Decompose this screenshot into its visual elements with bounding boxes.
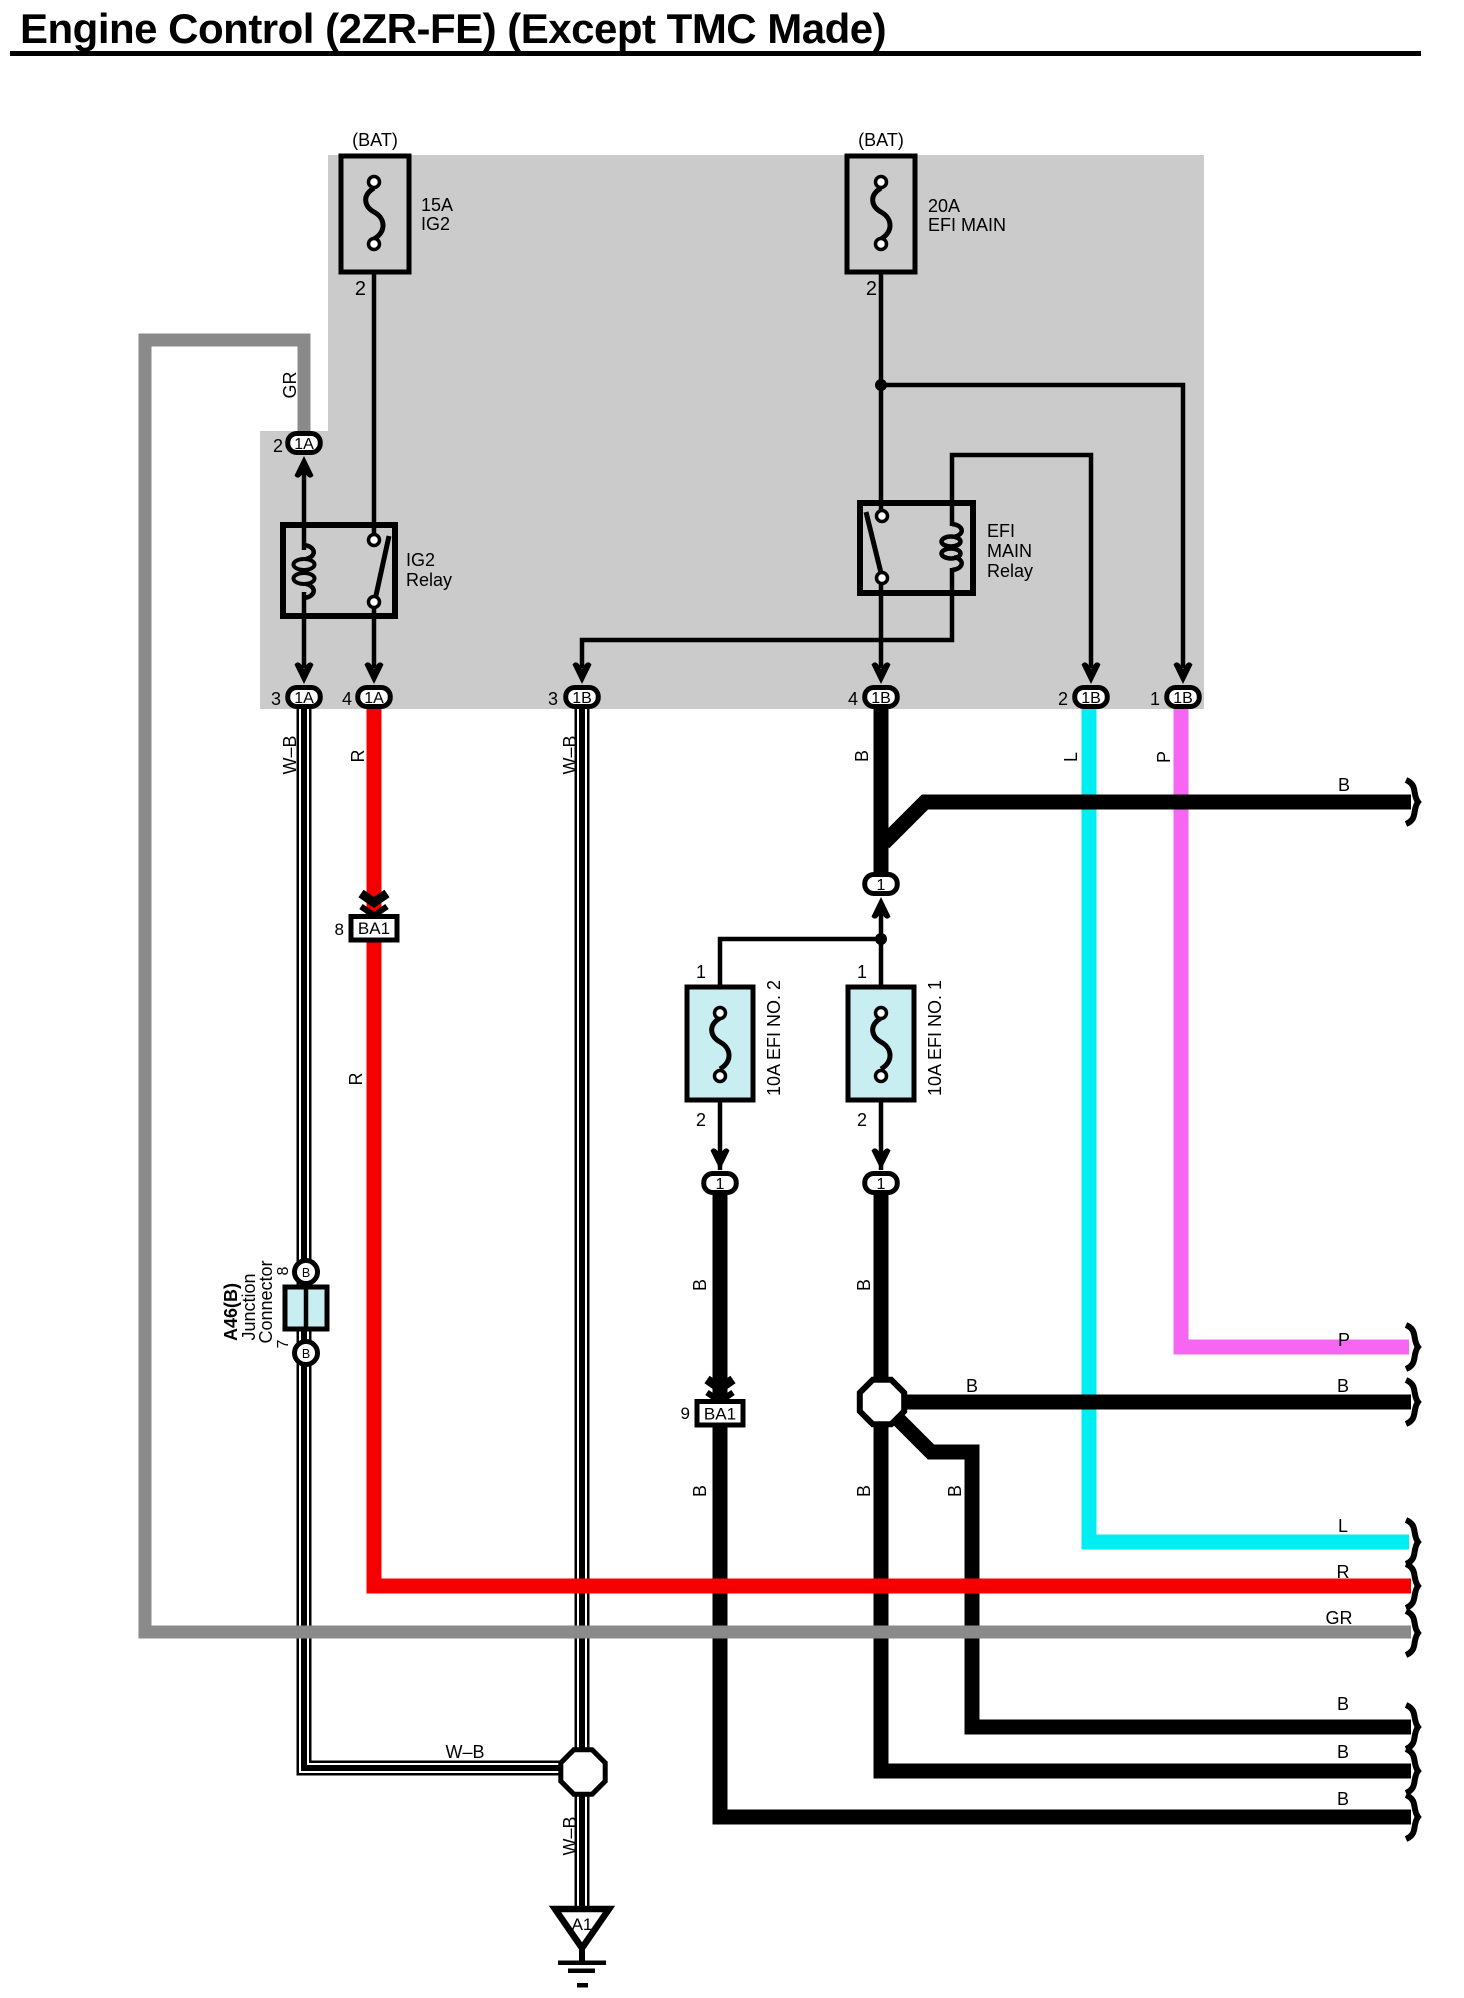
wire B: from octagon right to terminator [900, 1395, 1411, 1410]
fuse 15A IG2 [341, 156, 409, 272]
svg-text:1B: 1B [572, 690, 592, 707]
wire: IG2 relay switch bottom down to connector 4-1A [372, 602, 377, 668]
wire: IG2 relay coil bottom down to connector 3-1A [302, 592, 307, 668]
svg-text:2: 2 [273, 436, 283, 456]
svg-text:B: B [966, 1376, 978, 1396]
wire B: thick black from oval-1 of fuse EFI NO.2 down then right to terminator [720, 1194, 1411, 1817]
svg-text:B: B [1337, 1694, 1349, 1714]
svg-text:EFI: EFI [987, 521, 1015, 541]
svg-text:A46(B): A46(B) [221, 1283, 241, 1341]
wire B: from octagon down then right to terminator [881, 1420, 1411, 1771]
wire: thin black from fuse EFI MAIN pin2 down to EFI MAIN relay switch [879, 272, 884, 516]
svg-text:R: R [346, 1073, 366, 1086]
connector 4-1A oval with down arrow [358, 662, 391, 707]
svg-text:1A: 1A [364, 690, 384, 707]
wire L: cyan from 2-1B down then right to terminator [1089, 700, 1409, 1542]
svg-text:BA1: BA1 [358, 919, 390, 938]
svg-text:1A: 1A [294, 690, 314, 707]
svg-text:Relay: Relay [406, 570, 452, 590]
title underline [10, 51, 1421, 56]
svg-text:1: 1 [696, 962, 706, 982]
svg-text:EFI MAIN: EFI MAIN [928, 215, 1006, 235]
terminator brace GR [1406, 1611, 1418, 1655]
svg-text:L: L [1338, 1516, 1348, 1536]
svg-text:1: 1 [877, 877, 886, 894]
svg-text:10A EFI NO. 2: 10A EFI NO. 2 [764, 980, 784, 1096]
svg-text:8: 8 [275, 1266, 292, 1275]
svg-text:GR: GR [280, 371, 300, 398]
wire B: thick black from oval-1 of fuse EFI NO.1 down to octagon [874, 1194, 889, 1382]
terminator brace L [1406, 1520, 1418, 1564]
junction connector A46(B) [285, 1261, 327, 1365]
svg-text:(BAT): (BAT) [858, 130, 904, 150]
svg-text:1A: 1A [294, 436, 314, 453]
connector oval 1 below fuse EFI NO.1 with down arrow [865, 1148, 898, 1193]
connector oval 1 on B feed with up arrow [865, 875, 898, 919]
wire B: thick black from 4-1B down to oval-1 [874, 700, 889, 872]
svg-text:R: R [1337, 1562, 1350, 1582]
svg-text:Connector: Connector [256, 1260, 276, 1343]
wire: thin black from fuse IG2 pin2 down to IG2 relay switch [372, 272, 377, 540]
wire: branch from node at (881,385) right and down to connector 1-1B [881, 385, 1183, 668]
connector 2-1A oval with up arrow [288, 434, 321, 478]
terminator brace B octagon [1406, 1380, 1418, 1424]
svg-text:1: 1 [1150, 689, 1160, 709]
fuse 10A EFI NO.2 [687, 987, 753, 1100]
svg-text:B: B [854, 1279, 874, 1291]
svg-text:MAIN: MAIN [987, 541, 1032, 561]
svg-text:2: 2 [866, 278, 877, 300]
wire W-B: from 3-1B down through octagon to ground A1 [575, 697, 590, 1907]
terminator brace R [1406, 1564, 1418, 1608]
wire B: diagonal branch to top-right horizontal terminator [884, 802, 1411, 843]
svg-text:IG2: IG2 [421, 214, 450, 234]
wire: thin black from oval-1 node down to branch node and fuses EFI NO.1 / NO.2 [879, 905, 884, 1014]
wire: thin black from fuse EFI NO.2 bottom to oval-1 [718, 1075, 723, 1170]
octagon junction B [860, 1380, 904, 1424]
svg-text:W–B: W–B [280, 735, 300, 774]
wire: from 2-1A connector down into IG2 relay coil [302, 470, 307, 550]
connector 4-1B oval with down arrow [865, 662, 898, 707]
svg-text:B: B [854, 1485, 874, 1497]
svg-text:20A: 20A [928, 196, 960, 216]
svg-text:1: 1 [857, 962, 867, 982]
svg-text:B: B [690, 1279, 710, 1291]
svg-text:W–B: W–B [560, 1816, 580, 1855]
svg-text:B: B [302, 1347, 310, 1361]
svg-text:W–B: W–B [560, 735, 580, 774]
svg-text:1B: 1B [1173, 690, 1193, 707]
svg-text:GR: GR [1326, 1608, 1353, 1628]
node: junction dot above fuse EFI NO.1 [875, 933, 887, 945]
wire W-B: left run from 3-1A down and right to octagon junction [304, 697, 560, 1768]
svg-text:B: B [1337, 1742, 1349, 1762]
svg-text:9: 9 [681, 1404, 690, 1423]
octagon junction W-B [561, 1750, 605, 1794]
wire P: magenta from 1-1B down then right to terminator [1181, 700, 1409, 1347]
connector 2-1B oval with down arrow [1075, 662, 1108, 707]
connector oval 1 below fuse EFI NO.2 with down arrow [704, 1148, 737, 1193]
svg-text:B: B [852, 750, 872, 762]
wire: from EFI MAIN relay coil bottom down, left, down to connector 3-1B [582, 568, 952, 668]
wire: branch left to fuse EFI NO.2 [720, 939, 881, 1014]
svg-text:1: 1 [877, 1176, 886, 1193]
svg-text:B: B [690, 1485, 710, 1497]
svg-text:L: L [1061, 752, 1081, 762]
ground A1 [555, 1909, 609, 1988]
gray block background [260, 155, 1204, 709]
svg-text:1: 1 [716, 1176, 725, 1193]
svg-text:B: B [1337, 1376, 1349, 1396]
svg-text:10A EFI NO. 1: 10A EFI NO. 1 [925, 980, 945, 1096]
svg-text:2: 2 [696, 1110, 706, 1130]
svg-text:3: 3 [548, 689, 558, 709]
connector 1-1B oval with down arrow [1167, 662, 1200, 707]
svg-text:Relay: Relay [987, 561, 1033, 581]
wire: from EFI MAIN relay coil top up and right down to connector 2-1B [952, 455, 1091, 668]
terminator brace B1 [1406, 1705, 1418, 1749]
svg-text:15A: 15A [421, 195, 453, 215]
fuse 10A EFI NO.1 [848, 987, 914, 1100]
terminator brace B2 [1406, 1749, 1418, 1793]
wire B: from octagon diagonal, down, right to terminator [893, 1414, 1411, 1727]
svg-text:4: 4 [342, 689, 352, 709]
svg-text:2: 2 [1058, 689, 1068, 709]
svg-text:P: P [1154, 751, 1174, 763]
connector 3-1B oval with down arrow [566, 662, 599, 707]
relay IG2 [283, 525, 395, 616]
svg-text:B: B [1338, 775, 1350, 795]
svg-text:3: 3 [271, 689, 281, 709]
node: junction dot on EFI MAIN feed [875, 379, 887, 391]
svg-text:R: R [348, 750, 368, 763]
svg-text:B: B [302, 1266, 310, 1280]
terminator brace B3 [1406, 1795, 1418, 1839]
terminator brace P [1406, 1325, 1418, 1369]
fuse 20A EFI MAIN [847, 156, 915, 272]
svg-text:(BAT): (BAT) [352, 130, 398, 150]
svg-text:1B: 1B [871, 690, 891, 707]
svg-text:P: P [1338, 1330, 1350, 1350]
svg-text:A1: A1 [572, 1915, 593, 1934]
wire: thin black from fuse EFI NO.1 bottom to oval-1 [879, 1075, 884, 1170]
svg-text:B: B [945, 1485, 965, 1497]
svg-text:W–B: W–B [445, 1742, 484, 1762]
svg-text:2: 2 [355, 278, 366, 300]
relay EFI MAIN [860, 503, 973, 593]
BA1 splice top (pin 8) with double chevron [351, 894, 397, 941]
svg-text:8: 8 [335, 920, 344, 939]
svg-text:Engine Control (2ZR-FE) (Excep: Engine Control (2ZR-FE) (Except TMC Made… [20, 5, 886, 52]
wire: EFI MAIN relay switch bottom down to connector 4-1B [879, 578, 884, 668]
BA1 splice bottom (pin 9) with double chevron [697, 1380, 743, 1426]
terminator brace B top right [1406, 780, 1418, 824]
svg-text:IG2: IG2 [406, 550, 435, 570]
wire GR: gray loop from 2-1A up, left, down, right to terminator [145, 340, 1411, 1632]
svg-text:4: 4 [848, 689, 858, 709]
svg-text:B: B [1337, 1789, 1349, 1809]
svg-text:2: 2 [857, 1110, 867, 1130]
svg-text:7: 7 [275, 1339, 292, 1348]
svg-text:BA1: BA1 [704, 1405, 736, 1424]
connector 3-1A oval with down arrow [288, 662, 321, 707]
svg-text:1B: 1B [1081, 690, 1101, 707]
wire R: red from 4-1A down then right to terminator [374, 700, 1411, 1586]
